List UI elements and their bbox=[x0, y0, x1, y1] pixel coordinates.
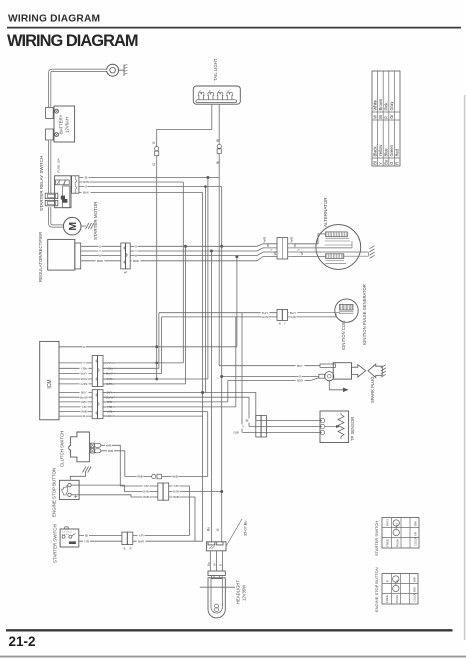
starter switch body bbox=[60, 529, 79, 547]
wire c1 r3 to bus bbox=[103, 373, 162, 375]
ground symbol (motor) bbox=[86, 223, 89, 229]
svg-text:CLUTCH SWITCH: CLUTCH SWITCH bbox=[60, 431, 65, 467]
svg-text:Bu: Bu bbox=[207, 527, 211, 531]
alternator connector 4P bbox=[277, 238, 288, 260]
starter switch continuity table bbox=[382, 518, 419, 549]
ICM box bbox=[40, 341, 59, 419]
wire motor to ground bbox=[81, 225, 86, 227]
svg-text:Bl: Bl bbox=[246, 419, 249, 423]
wire c1 r4 to bus bbox=[103, 378, 208, 380]
svg-text:W: W bbox=[300, 252, 304, 255]
wire Bl/R relay row bbox=[81, 192, 203, 194]
svg-text:R/B: R/B bbox=[108, 449, 113, 453]
wire bus V12 coil row3 to c2 r3 bbox=[227, 380, 229, 402]
svg-text:R: R bbox=[130, 547, 132, 551]
junction headlight G / engine stop bbox=[220, 490, 223, 493]
ignition coil body bbox=[333, 363, 351, 379]
wire c1 r1 to bus bbox=[103, 362, 183, 364]
svg-text:Brown: Brown bbox=[378, 98, 383, 110]
svg-text:Y/Bu: Y/Bu bbox=[81, 366, 88, 370]
svg-text:G: G bbox=[152, 141, 156, 144]
svg-text:B: B bbox=[124, 547, 126, 551]
svg-text:Bl: Bl bbox=[372, 161, 377, 165]
wire G vertical bus to ICM bbox=[156, 156, 158, 379]
wire Bl/D row to coil terminal bbox=[228, 378, 319, 381]
svg-text:W/B: W/B bbox=[173, 495, 179, 499]
wire c2 r1 to TP sensor r1 bbox=[103, 393, 256, 421]
ground symbol (frame) bbox=[123, 65, 125, 76]
wire TP row3 bbox=[243, 432, 323, 434]
svg-text:Bl/R: Bl/R bbox=[414, 521, 418, 526]
wire bus V9b from G row down bbox=[204, 187, 206, 393]
wires into alternator bbox=[292, 234, 326, 244]
svg-text:Y: Y bbox=[242, 425, 244, 429]
svg-text:Bl/R: Bl/R bbox=[133, 259, 140, 263]
footer rule bbox=[6, 629, 453, 631]
wire bus V4 R/W down to ICM c1 bbox=[182, 182, 184, 363]
svg-text:P: P bbox=[384, 116, 389, 119]
svg-text:Bl: Bl bbox=[85, 534, 88, 538]
pulse generator coil bbox=[340, 304, 354, 310]
svg-text:Y: Y bbox=[297, 249, 301, 251]
wire rows connector to alternator with jog bbox=[130, 244, 277, 247]
svg-text:Br: Br bbox=[378, 114, 383, 119]
svg-text:Bl/Y: Bl/Y bbox=[81, 391, 87, 395]
svg-text:WIRING DIAGRAM: WIRING DIAGRAM bbox=[7, 32, 138, 50]
svg-text:B: B bbox=[279, 322, 281, 325]
svg-text:Y/R: Y/R bbox=[81, 405, 87, 409]
headlight socket wires bbox=[209, 551, 211, 571]
cable relay to starter motor (double line) bbox=[50, 207, 63, 226]
battery bolt terminal top bbox=[55, 109, 59, 113]
battery bolt terminal bottom bbox=[55, 133, 59, 137]
svg-text:Bl/Y: Bl/Y bbox=[297, 364, 303, 368]
wire G to coil bbox=[222, 376, 319, 378]
bullet connector Bl bbox=[217, 144, 221, 148]
regulator rectifier body bbox=[48, 239, 75, 270]
svg-text:W: W bbox=[372, 115, 377, 119]
svg-text:HEADLIGHT: HEADLIGHT bbox=[235, 580, 240, 604]
starter switch connector 2P bbox=[122, 532, 127, 545]
wire clutch R/B bbox=[101, 451, 125, 477]
svg-text:W/B: W/B bbox=[137, 475, 143, 479]
TP sensor body bbox=[320, 411, 349, 443]
wire bus clutch W/B up bbox=[207, 412, 209, 477]
svg-text:BATTERY: BATTERY bbox=[59, 114, 64, 134]
svg-text:Y/R: Y/R bbox=[414, 532, 418, 536]
wire c2 r3 to coil bus bbox=[103, 401, 228, 403]
junction relay-Bl/tail bbox=[206, 176, 209, 179]
alternator stator coil bottom bbox=[326, 254, 344, 259]
junction coil G bbox=[220, 375, 223, 378]
wire clutch bullet row W/B bbox=[125, 476, 152, 478]
svg-text:Green: Green bbox=[389, 144, 394, 156]
svg-text:PUSH: PUSH bbox=[396, 539, 400, 547]
ground symbol (alternator) bbox=[370, 246, 375, 249]
headlight socket bar bbox=[208, 571, 225, 576]
svg-text:W/B: W/B bbox=[413, 577, 417, 582]
svg-text:STARTER SWITCH: STARTER SWITCH bbox=[374, 521, 379, 556]
svg-text:ICM: ICM bbox=[47, 379, 53, 388]
svg-text:Y: Y bbox=[135, 249, 137, 253]
svg-text:Y: Y bbox=[83, 361, 85, 365]
svg-text:W: W bbox=[213, 563, 217, 566]
ground symbol (engine stop) bbox=[83, 467, 86, 473]
svg-text:Y/R: Y/R bbox=[84, 539, 90, 543]
svg-text:W/B: W/B bbox=[106, 443, 112, 447]
svg-text:Y: Y bbox=[270, 249, 274, 251]
coil primary terminal 1 bbox=[320, 364, 335, 367]
wire Bl relay row with labels bbox=[81, 177, 220, 179]
TP sensor connector 3P bbox=[256, 416, 261, 438]
wire bus V10 Bu from regulator row down to headlight bbox=[211, 251, 213, 543]
svg-text:IGNITION COIL: IGNITION COIL bbox=[341, 320, 346, 350]
svg-text:W/B: W/B bbox=[143, 495, 149, 499]
svg-text:Yellow: Yellow bbox=[378, 145, 383, 157]
svg-text:COLOR: COLOR bbox=[414, 537, 418, 546]
relay internal box bbox=[63, 186, 70, 208]
headlight connector bbox=[207, 542, 227, 551]
headlight bulb outer bbox=[208, 578, 225, 618]
page edge line bottom bbox=[0, 656, 466, 658]
engine stop button body bbox=[60, 480, 80, 499]
ICM connector 2 (6P) bbox=[92, 390, 97, 419]
regulator connector bbox=[75, 243, 81, 269]
svg-text:IG: IG bbox=[395, 580, 399, 583]
starter switch rows to connector bbox=[79, 535, 122, 537]
svg-text:ENGINE STOP BUTTON: ENGINE STOP BUTTON bbox=[374, 567, 379, 612]
engine stop connector 3P bbox=[158, 483, 163, 500]
battery ground ring terminal bbox=[107, 64, 119, 76]
headlight flange line bbox=[200, 586, 235, 588]
svg-text:R/D: R/D bbox=[81, 400, 87, 404]
engine stop rows right bbox=[169, 486, 190, 536]
svg-text:Y: Y bbox=[284, 322, 286, 325]
clutch switch terminals bbox=[90, 443, 94, 447]
clutch switch body bbox=[69, 432, 90, 462]
wire alternator coil to ground bbox=[344, 252, 369, 256]
alternator stator coil top bbox=[326, 232, 348, 237]
wire tail light left (G) down and left bbox=[157, 104, 212, 146]
svg-text:STARTER SWITCH: STARTER SWITCH bbox=[53, 524, 58, 563]
battery positive cable (double line) bbox=[50, 70, 107, 107]
svg-text:TP SENSOR: TP SENSOR bbox=[350, 417, 355, 441]
wires connector to pulse generator bbox=[288, 312, 340, 314]
svg-text:Bl/R: Bl/R bbox=[97, 259, 104, 263]
wire bus V5 from regulator G row down to ICM c1 r5 bbox=[185, 246, 187, 384]
svg-text:G/Pk: G/Pk bbox=[81, 382, 88, 386]
svg-text:REGULATOR/RECTIFIER: REGULATOR/RECTIFIER bbox=[38, 232, 43, 282]
wire regulator rows to inline connector bbox=[82, 245, 121, 247]
svg-text:W/G: W/G bbox=[81, 377, 88, 381]
wire c2 r6 row bbox=[103, 415, 203, 417]
tail light bbox=[193, 86, 240, 104]
coil HT output arrow bbox=[352, 365, 366, 377]
svg-text:Blue: Blue bbox=[384, 148, 389, 157]
wire R/W relay row bbox=[81, 181, 184, 183]
svg-text:M: M bbox=[67, 222, 79, 231]
wire bus V16 Bl down to ignition coil bbox=[218, 154, 220, 366]
svg-text:Gray: Gray bbox=[389, 101, 394, 111]
wire Bl/Y to coil bbox=[219, 365, 320, 367]
svg-text:FREE: FREE bbox=[385, 595, 389, 603]
header rule bbox=[7, 27, 461, 29]
battery BATTERY 12V6AH bbox=[54, 106, 75, 142]
svg-text:ST: ST bbox=[395, 523, 399, 527]
svg-text:Bl: Bl bbox=[216, 139, 220, 142]
svg-text:Pink: Pink bbox=[384, 102, 389, 111]
relay plug upper bbox=[45, 193, 58, 198]
wire bus V9 down to ICM c1 r4 bbox=[207, 178, 209, 380]
svg-text:Bu/Y: Bu/Y bbox=[81, 372, 88, 376]
svg-text:E: E bbox=[385, 580, 389, 582]
svg-text:35-07 Bu: 35-07 Bu bbox=[244, 521, 248, 536]
svg-text:PUSH: PUSH bbox=[395, 595, 399, 603]
starter relay output connector bbox=[72, 176, 79, 193]
svg-text:Bl: Bl bbox=[85, 176, 88, 180]
alternator circle bbox=[316, 225, 361, 270]
svg-text:W/B: W/B bbox=[172, 475, 178, 479]
wire bus V11 G down to headlight bbox=[221, 187, 223, 542]
coil ground stub and continuation arrow bbox=[329, 381, 343, 390]
scan edge right bbox=[464, 95, 466, 640]
svg-text:Bu: Bu bbox=[384, 160, 389, 165]
svg-text:Bl/D: Bl/D bbox=[297, 379, 304, 383]
pulse generator connector 2P bbox=[277, 309, 282, 320]
svg-text:W/B: W/B bbox=[81, 410, 87, 414]
svg-text:STARTER MOTOR: STARTER MOTOR bbox=[93, 201, 98, 240]
wire ICM G row bbox=[59, 346, 237, 348]
wire c1 r5 to bus bbox=[103, 383, 186, 385]
svg-text:FUSE 10A: FUSE 10A bbox=[57, 158, 61, 172]
ICM connector 1 (5P) bbox=[92, 355, 97, 386]
battery negative cable to starter relay (double line) bbox=[48, 140, 51, 194]
engine stop continuity table bbox=[382, 574, 418, 605]
ICM connector 1 rows bbox=[59, 362, 92, 364]
svg-text:G: G bbox=[219, 563, 223, 566]
bullet connector W/B pair bbox=[152, 474, 156, 478]
svg-text:STARTER RELAY SWITCH: STARTER RELAY SWITCH bbox=[39, 156, 44, 211]
svg-text:Bl: Bl bbox=[266, 244, 270, 247]
svg-text:Y: Y bbox=[99, 249, 101, 253]
wire bullet row right bbox=[168, 476, 208, 478]
inline connector 4P regulator bbox=[121, 243, 126, 269]
wire TP row2 bbox=[249, 426, 322, 428]
starter switch rows right bbox=[133, 535, 190, 537]
svg-text:SPARK PLUG: SPARK PLUG bbox=[370, 377, 375, 403]
ICM connector 2 rows bbox=[59, 392, 92, 394]
svg-text:G: G bbox=[389, 162, 394, 165]
spark plug arrow bbox=[368, 364, 382, 378]
TP sensor terminals bbox=[320, 418, 324, 422]
svg-text:IGNITION PULSE GENERATOR: IGNITION PULSE GENERATOR bbox=[362, 284, 367, 345]
svg-text:Y/R: Y/R bbox=[143, 484, 149, 488]
wire clutch W/B bbox=[101, 445, 120, 486]
svg-text:G/W: G/W bbox=[173, 490, 179, 494]
svg-text:G: G bbox=[216, 528, 220, 531]
wire c2 r4 row bbox=[103, 406, 236, 408]
svg-text:Y/R: Y/R bbox=[138, 534, 144, 538]
svg-text:Bl/R: Bl/R bbox=[138, 539, 145, 543]
svg-text:Bl/X: Bl/X bbox=[83, 191, 89, 195]
headlight bulb inner bbox=[211, 579, 222, 613]
svg-text:Y/R: Y/R bbox=[173, 484, 179, 488]
svg-text:Bu/W: Bu/W bbox=[80, 395, 88, 399]
svg-text:R: R bbox=[395, 162, 400, 165]
engine stop rows left bbox=[120, 485, 158, 487]
svg-text:G/W: G/W bbox=[143, 490, 149, 494]
svg-text:BAT3: BAT3 bbox=[386, 519, 390, 526]
TP wiper arrow bbox=[325, 426, 336, 428]
svg-text:ALTERNATOR: ALTERNATOR bbox=[323, 197, 328, 227]
battery terminal block top bbox=[46, 108, 54, 119]
svg-text:12V6AH: 12V6AH bbox=[65, 117, 70, 133]
svg-text:TAIL LIGHT: TAIL LIGHT bbox=[213, 58, 218, 81]
svg-text:White: White bbox=[372, 99, 377, 110]
wire bus V14 alternator G up-down to ICM G row bbox=[236, 257, 238, 347]
wire bus V8 Bl/R down bbox=[202, 193, 204, 542]
wire tail light right (Bl) down bbox=[218, 104, 220, 144]
starter motor M bbox=[63, 217, 81, 235]
svg-text:W/B: W/B bbox=[290, 237, 294, 243]
svg-text:G/W: G/W bbox=[262, 315, 268, 319]
relay internal contact (dark) bbox=[61, 196, 68, 203]
svg-text:4P: 4P bbox=[124, 271, 127, 275]
wire TP row1 bbox=[256, 420, 322, 422]
svg-text:W: W bbox=[99, 254, 102, 258]
svg-text:COLOR: COLOR bbox=[413, 593, 417, 602]
wire c2 r5 to clutch bus bbox=[103, 411, 208, 413]
svg-text:R/W: R/W bbox=[83, 180, 89, 184]
svg-text:G: G bbox=[152, 162, 156, 165]
svg-text:Bu: Bu bbox=[206, 562, 210, 566]
wire G relay row bbox=[81, 186, 222, 188]
wire bus V13 pulse to c2 r4 bbox=[235, 317, 237, 407]
wire c1 r2 to bus bbox=[103, 367, 159, 369]
svg-text:Y: Y bbox=[378, 162, 383, 165]
engine stop ground wire bbox=[70, 472, 85, 481]
svg-text:G/B: G/B bbox=[233, 431, 238, 435]
svg-text:21-2: 21-2 bbox=[9, 634, 36, 649]
junction G bus at ICM row bbox=[155, 345, 158, 348]
svg-text:G/W: G/W bbox=[290, 315, 296, 319]
svg-text:W: W bbox=[135, 254, 138, 258]
bullet connector G bbox=[155, 147, 159, 151]
wire TP r3 bus from pulse band bbox=[241, 313, 243, 433]
relay plug lower bbox=[45, 200, 58, 205]
wire c2 r2 to TP sensor r2 bbox=[103, 397, 249, 426]
svg-text:W/B: W/B bbox=[263, 237, 267, 243]
ignition pulse generator circle bbox=[335, 299, 358, 322]
battery terminal block bottom bbox=[46, 129, 54, 140]
coil primary terminal 2 (eye) bbox=[325, 372, 334, 381]
svg-text:WIRING DIAGRAM: WIRING DIAGRAM bbox=[8, 14, 100, 25]
fuse symbol bbox=[55, 180, 69, 185]
svg-text:Bl/G: Bl/G bbox=[413, 587, 417, 592]
wire color legend table bbox=[372, 71, 400, 166]
svg-text:Gr: Gr bbox=[389, 114, 394, 119]
ground symbol (spark plug) bbox=[381, 365, 386, 368]
wire pulse generator rows bbox=[159, 312, 277, 314]
svg-text:Red: Red bbox=[395, 148, 400, 156]
svg-text:ENGINE STOP BUTTON: ENGINE STOP BUTTON bbox=[52, 468, 57, 517]
svg-text:Black: Black bbox=[372, 146, 377, 157]
svg-text:FREE: FREE bbox=[386, 539, 390, 547]
TP potentiometer bbox=[338, 415, 344, 437]
headlight filament bbox=[215, 604, 219, 608]
svg-text:12V35W: 12V35W bbox=[241, 585, 246, 601]
starter relay switch body bbox=[55, 176, 71, 208]
